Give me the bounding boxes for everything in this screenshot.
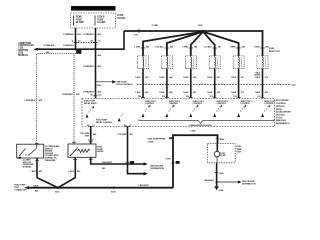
svg-text:CONN: CONN [148,142,154,144]
fuel pump test connector label [14,185,27,192]
fuel pump prime connector label [148,139,166,144]
svg-text:SEPARATELY): SEPARATELY) [276,122,290,125]
ground bus 1 BLK 450 [24,185,173,194]
svg-text:RELAY CONTROL: RELAY CONTROL [96,121,113,124]
svg-text:MODULE: MODULE [276,106,285,108]
svg-text:FUSE: FUSE [117,15,123,17]
svg-text:DISTRIBUTION: DISTRIBUTION [150,168,164,170]
svg-text:1 PNK/BLK: 1 PNK/BLK [62,94,74,96]
splice S128 block [76,50,81,54]
injector 3 feed wire [191,32,203,56]
svg-text:DISTRIBUTION: DISTRIBUTION [242,184,256,186]
svg-text:FUSE: FUSE [76,19,82,21]
fuse block box [71,13,116,28]
svg-text:C16: C16 [98,94,101,96]
fuel injector 6 [257,56,268,69]
fuel injector 4 [209,56,220,69]
injector 2 return wire [159,69,173,99]
svg-text:1 PNK/BLK: 1 PNK/BLK [83,34,95,36]
svg-text:1 BLK: 1 BLK [33,185,39,187]
injector 4 return wire [207,69,221,99]
svg-text:D14: D14 [186,95,189,98]
branch arrow SEE FUSE BLOCK DETAILS [96,80,134,86]
svg-text:B8: B8 [124,125,126,127]
svg-text:1 BLK: 1 BLK [183,77,189,79]
injector 5 feed connector tick and label [230,46,246,49]
svg-text:10 AMP: 10 AMP [97,21,105,24]
svg-text:1 BLK: 1 BLK [255,92,261,94]
dashed reference wire to fuel pump relay coil [62,55,81,143]
svg-text:(QUAD-DRIVER: (QUAD-DRIVER [276,111,291,114]
svg-text:CONNECTOR: CONNECTOR [14,189,27,191]
ECM output wire to fuel pump relay 1 DK GRN/WHT 465 [80,124,97,144]
injector 2 feed wire [167,32,203,56]
svg-text:BLOCK DETAILS: BLOCK DETAILS [117,83,134,86]
svg-text:C203: C203 [291,84,295,86]
svg-text:1 BLK/WHT: 1 BLK/WHT [102,162,113,164]
svg-text:INJECTOR: INJECTOR [269,51,280,53]
svg-text:1 BLK: 1 BLK [231,92,237,94]
svg-text:PRESSURE: PRESSURE [45,160,56,162]
injector 6 driver in ECM [261,101,276,117]
svg-text:1 PNK/BLK: 1 PNK/BLK [63,34,75,36]
svg-text:QUAD-DRIVER MODULE: QUAD-DRIVER MODULE [189,124,212,127]
injector 3 feed connector tick and label [182,46,198,49]
svg-text:1 LT BLU: 1 LT BLU [203,47,212,49]
power banner HOT IN RUN [71,6,116,11]
relay output wire 1 BLK 450 [58,157,81,187]
svg-text:1 PNK/BLK: 1 PNK/BLK [83,66,95,68]
injector 1 return wire [135,69,149,99]
off page arrows label [150,165,164,170]
svg-text:1 DK BLU: 1 DK BLU [155,47,164,49]
svg-text:SEE GROUND: SEE GROUND [150,165,164,167]
svg-text:IS NOT: IS NOT [276,117,283,119]
injector 6 return wire [255,69,269,99]
svg-text:1 BLK/WHT: 1 BLK/WHT [204,180,215,182]
svg-text:RELAY: RELAY [97,150,104,153]
injector 5 feed wire [203,32,239,56]
svg-text:10 AMP: 10 AMP [76,21,84,24]
connector C1 tick on wire B [91,41,101,43]
svg-text:D13: D13 [210,96,213,98]
svg-text:D11: D11 [258,96,261,98]
splice S207 [198,25,205,33]
svg-text:A1: A1 [87,124,89,127]
svg-text:1 BRN: 1 BRN [230,47,236,49]
fuel pump relay box [68,142,96,157]
ground G108 [214,186,224,192]
svg-text:1 BLK: 1 BLK [68,171,74,173]
oil pressure switch box [17,144,44,159]
fuel tank unit box with fuel pump [207,143,235,162]
connector C16 tick at ECM entry [91,94,102,96]
svg-text:MODULE: MODULE [276,115,285,117]
svg-text:FUEL PUMP PRIME: FUEL PUMP PRIME [148,139,166,141]
svg-text:CONTROL: CONTROL [276,103,287,105]
injector 3 driver in ECM [189,101,204,117]
svg-text:2 ORN 439: 2 ORN 439 [44,44,55,47]
svg-text:1 BLK/WHT: 1 BLK/WHT [138,185,149,187]
svg-text:C1: C1 [129,125,131,127]
svg-text:D16: D16 [138,96,141,98]
svg-text:B1: B1 [91,94,93,96]
fuel injector 2 [161,56,172,69]
ECM output wire 1 DK GRN 465 off-page [117,125,148,176]
svg-text:1 BLK: 1 BLK [183,92,189,94]
fuel pump ground wire 1 BLK/WHT 450 [204,163,225,186]
fuel pump relay driver in ECM [84,100,113,124]
fuse block label [117,15,125,20]
ECM label [276,100,291,125]
svg-text:1 BLK: 1 BLK [135,77,141,79]
fuse F1 ECM I 10 AMP [73,16,84,26]
svg-text:SEE GROUND: SEE GROUND [242,181,256,183]
injector 4 feed connector tick and label [203,46,221,49]
svg-text:MODULE: MODULE [18,55,28,57]
injector 4 driver in ECM [213,100,228,117]
svg-text:HOT IN RUN, BULB TEST OR START: HOT IN RUN, BULB TEST OR START [73,8,115,11]
svg-text:1 BLK: 1 BLK [159,77,165,79]
injector 5 return wire [231,69,245,99]
fuel pump feed wire 1 GRY 120 [165,131,225,188]
splice and arrow SEE GROUND DISTRIBUTION [216,180,257,185]
svg-text:(ECM): (ECM) [276,109,282,111]
svg-text:FUEL: FUEL [269,48,275,50]
svg-text:1 PNK: 1 PNK [182,47,188,49]
oil switch sub label [23,160,34,169]
injector 4 feed wire [203,32,215,56]
svg-text:C1: C1 [92,125,94,127]
svg-text:ELECTRONIC: ELECTRONIC [276,100,290,102]
svg-text:1 GRY: 1 GRY [190,131,196,133]
svg-text:1 BLK: 1 BLK [30,171,36,173]
svg-text:1 PNK/BLK: 1 PNK/BLK [24,100,36,102]
injector 1 driver in ECM [142,101,157,117]
fuse F2 ECM B 10 AMP [94,16,105,26]
switch output wire 1 BLK 450 [30,158,57,188]
svg-text:TANK: TANK [237,148,243,151]
C3I module label [18,43,34,57]
inline connector row C203 [137,84,295,86]
wire to C3I module 2 ORN 439 [34,31,124,54]
injector 5 driver in ECM [237,101,252,117]
fuel injector 5 [233,56,244,69]
svg-text:1 ORN: 1 ORN [254,47,260,49]
wire fuse F1 output 1 PNK/BLK 439 [63,28,82,50]
splice S116 [55,186,60,193]
svg-text:1 GRN: 1 GRN [134,47,140,49]
ECM module box [82,99,275,127]
svg-text:ECM B: ECM B [97,17,105,19]
splice S126 label [97,85,102,87]
fuel pump relay label [97,146,104,153]
svg-text:2 ORN: 2 ORN [152,25,159,27]
svg-text:1 PNK/BLK: 1 PNK/BLK [63,45,75,47]
svg-text:SERVICED: SERVICED [276,120,287,122]
svg-text:1 BLK: 1 BLK [207,77,213,79]
dashed connector bridge C2-C1 [76,42,96,44]
injector 6 feed connector tick and label [254,46,270,49]
svg-text:1 BLK: 1 BLK [159,92,165,94]
svg-text:1 PNK/BLK: 1 PNK/BLK [83,91,95,93]
svg-text:NORMAL: NORMAL [23,166,32,169]
injector 2 driver in ECM [166,101,181,117]
svg-text:ECM I: ECM I [76,17,83,19]
fuel injector 1 [138,56,149,69]
svg-text:B1: B1 [91,41,93,43]
injector supply bus 2 ORN [124,25,263,56]
svg-text:D12: D12 [234,96,237,98]
svg-text:1 DK GRN: 1 DK GRN [117,134,127,136]
svg-text:D15: D15 [162,96,165,98]
svg-text:1 GRY: 1 GRY [165,158,171,160]
svg-text:C1B: C1B [134,34,138,36]
injector 3 return wire [183,69,197,99]
svg-text:RELAY DRIVE: RELAY DRIVE [84,102,97,105]
quad driver brace and label [139,119,274,127]
svg-text:C1: C1 [98,41,100,43]
injector 2 feed connector tick and label [155,46,174,49]
svg-text:1 BLK: 1 BLK [207,92,213,94]
fuel tank unit label [237,146,243,153]
fuel injector 3 [185,56,196,69]
second driver symbol in ECM [118,114,123,122]
svg-text:1 BLK: 1 BLK [255,77,261,79]
svg-text:BLOCK: BLOCK [117,18,125,20]
svg-text:PUMP: PUMP [220,155,226,157]
fuel injector label [269,48,280,53]
dashed reference wire to oil pressure switch [24,54,76,143]
svg-text:FUSE: FUSE [97,19,103,21]
wire fuse F2 output 1 PNK/BLK 439 to ECM [83,28,102,98]
relay output wire 1 BLK/WHT 450 off-page [89,157,148,170]
oil pressure switch label [45,146,60,162]
injector 1 feed connector tick and label [134,46,150,49]
svg-text:1 BLK: 1 BLK [135,92,141,94]
connector C2 tick on wire A [72,40,81,43]
svg-text:1 BLK: 1 BLK [231,77,237,79]
injector 1 feed wire [143,32,203,56]
injector 6 wire extra label [255,72,261,76]
connector C1B tick on bus [134,29,139,37]
